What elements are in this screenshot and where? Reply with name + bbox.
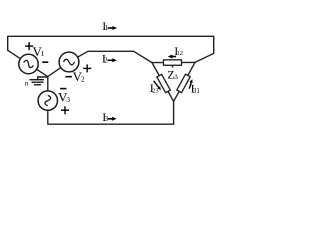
wire delta left branch node2-node3 [152,63,174,102]
arrow I12 pointing left [168,55,176,59]
plus sign V1 [25,42,33,50]
svg-text:1: 1 [41,49,45,58]
wire delta right branch node1-node3 [174,62,195,101]
impedance Z top (nodes 1-2) [164,60,182,65]
wire delta top side node2-node1 [152,61,195,63]
svg-text:31: 31 [193,87,201,95]
arrow I31 pointing up-right [189,79,192,88]
svg-text:Δ: Δ [174,74,178,81]
arrow I23 pointing down-right [154,81,161,90]
ground [30,77,48,85]
wire V1 top lead [8,50,21,58]
svg-text:n: n [25,79,29,88]
voltage source V1 [19,54,38,73]
plus sign V3 [61,106,69,114]
minus sign V2 [66,76,72,78]
plus sign V2 [83,64,91,72]
wire top bus line 1 [8,36,214,62]
svg-text:23: 23 [152,87,159,94]
arrow I1 [108,26,117,30]
voltage source V3 [38,91,57,110]
wire V2 to middle bus line 2 [78,51,152,62]
wire neutral junction to V2 [48,68,61,77]
arrow I2 [108,58,117,62]
impedance Z delta left (nodes 2-3) [157,74,170,92]
leader tick from Z label to top impedance [172,65,174,67]
arrow I3 [108,117,117,121]
minus sign V3 [60,88,66,90]
wire bottom bus line 3 [48,101,174,124]
wire V1 to neutral junction [37,69,48,76]
voltage source V2 [59,52,79,72]
svg-text:2: 2 [104,56,108,65]
impedance Z delta right (nodes 3-1) [177,74,190,92]
svg-text:2: 2 [81,74,85,83]
svg-text:12: 12 [177,50,184,57]
wire neutral junction to V3 [47,77,49,91]
minus sign V1 [42,61,48,63]
svg-text:3: 3 [66,95,70,104]
